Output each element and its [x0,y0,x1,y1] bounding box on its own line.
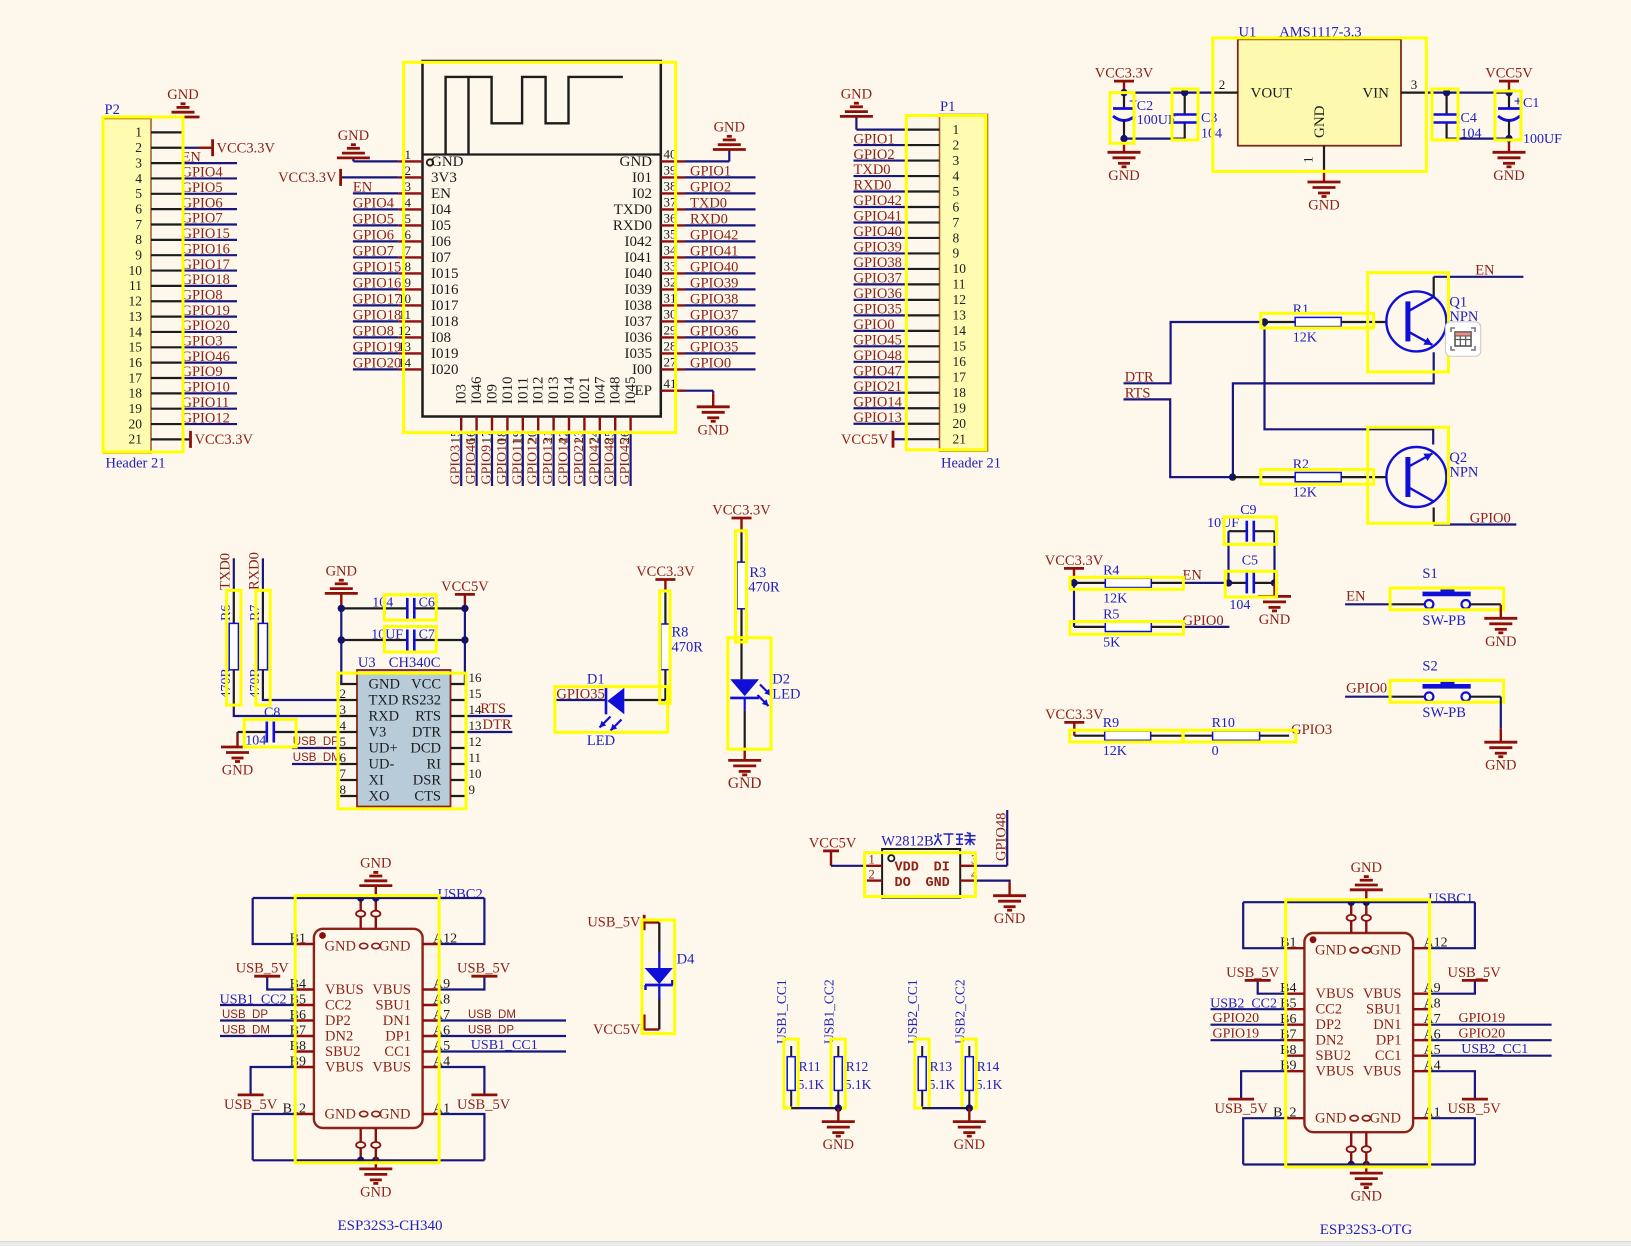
svg-text:GPIO38: GPIO38 [854,255,902,271]
svg-text:GPIO3: GPIO3 [182,334,223,350]
svg-text:USBC1: USBC1 [1428,891,1473,907]
svg-text:20: 20 [129,416,143,431]
svg-text:GPIO37: GPIO37 [690,308,738,324]
svg-text:USB_DM: USB_DM [468,1009,516,1021]
svg-text:6: 6 [405,227,412,242]
svg-text:DI: DI [934,861,950,876]
svg-text:GND: GND [823,1137,854,1153]
svg-text:GND: GND [620,154,653,170]
svg-text:100UF: 100UF [1523,132,1562,147]
svg-text:I02: I02 [632,186,652,202]
svg-text:GPIO13: GPIO13 [854,410,902,426]
svg-text:R11: R11 [799,1059,821,1074]
svg-text:GPIO39: GPIO39 [690,276,738,292]
svg-text:9: 9 [135,248,142,263]
svg-text:RXD0: RXD0 [690,212,728,228]
svg-text:GND: GND [714,120,745,136]
svg-text:CTS: CTS [414,789,441,805]
svg-text:GPIO19: GPIO19 [182,303,230,319]
svg-text:GPIO5: GPIO5 [182,180,223,196]
svg-text:GPIO35: GPIO35 [690,340,738,356]
svg-text:I07: I07 [431,250,451,266]
svg-text:VCC5V: VCC5V [841,432,889,448]
svg-text:19: 19 [953,401,967,416]
svg-text:USB2_CC1: USB2_CC1 [905,979,920,1044]
svg-text:15: 15 [953,339,967,354]
svg-text:EN: EN [1475,263,1495,279]
svg-text:GND: GND [167,87,198,103]
svg-text:7: 7 [953,215,960,230]
svg-text:GPIO13: GPIO13 [541,438,556,485]
svg-text:C3: C3 [1201,111,1217,126]
svg-text:USB1_CC2: USB1_CC2 [821,979,836,1044]
svg-text:S1: S1 [1422,566,1437,582]
svg-text:GND: GND [1370,943,1401,959]
svg-text:GPIO37: GPIO37 [854,271,902,287]
svg-text:470R: 470R [672,640,704,656]
svg-text:GPIO42: GPIO42 [690,228,738,244]
svg-text:GPIO41: GPIO41 [690,244,738,260]
svg-text:GPIO48: GPIO48 [603,438,618,485]
svg-text:GPIO16: GPIO16 [182,241,230,257]
svg-text:VCC: VCC [411,677,441,693]
svg-text:104: 104 [1461,127,1482,142]
svg-text:GPIO45: GPIO45 [854,333,902,349]
svg-text:12K: 12K [1293,486,1317,501]
svg-text:GPIO35: GPIO35 [854,302,902,318]
svg-text:USB_5V: USB_5V [1226,965,1280,981]
svg-text:5.1K: 5.1K [976,1077,1003,1092]
svg-text:I09: I09 [485,384,501,404]
svg-text:GND: GND [338,128,369,144]
svg-text:I011: I011 [515,377,531,404]
svg-text:UD-: UD- [369,757,395,773]
svg-text:C7: C7 [419,628,435,643]
svg-text:GPIO3: GPIO3 [449,445,464,485]
svg-text:UD+: UD+ [369,741,398,757]
svg-text:GPIO42: GPIO42 [854,193,902,209]
svg-text:VDD: VDD [895,861,919,876]
svg-text:2: 2 [405,163,412,178]
svg-text:11: 11 [953,277,966,292]
svg-text:EN: EN [431,186,451,202]
svg-text:GND: GND [326,563,357,579]
svg-text:GPIO9: GPIO9 [182,364,223,380]
svg-text:2: 2 [1219,77,1226,92]
svg-text:I047: I047 [592,376,608,404]
svg-text:DP1: DP1 [1376,1033,1402,1049]
svg-text:SBU2: SBU2 [325,1044,360,1060]
svg-text:CC2: CC2 [1316,1002,1343,1018]
svg-text:470R: 470R [748,580,780,596]
svg-text:I014: I014 [562,376,578,404]
svg-text:I015: I015 [431,266,459,282]
svg-text:15: 15 [469,686,482,701]
svg-text:EN: EN [1346,588,1366,604]
svg-text:GPIO21: GPIO21 [572,438,587,485]
svg-text:5.1K: 5.1K [845,1077,872,1092]
svg-text:USB_5V: USB_5V [1448,965,1502,981]
svg-text:USB_5V: USB_5V [1448,1101,1502,1117]
svg-text:GND: GND [925,876,949,891]
svg-text:17: 17 [953,370,967,385]
svg-text:GPIO19: GPIO19 [1213,1027,1260,1042]
svg-text:GPIO47: GPIO47 [854,363,902,379]
svg-text:USB_5V: USB_5V [224,1097,278,1113]
svg-text:GPIO19: GPIO19 [353,340,401,356]
svg-text:6: 6 [135,201,142,216]
svg-text:R14: R14 [977,1059,1000,1074]
svg-text:GPIO40: GPIO40 [690,260,738,276]
svg-text:RI: RI [427,757,442,773]
svg-text:USB_DP: USB_DP [222,1009,268,1021]
svg-text:12: 12 [953,292,967,307]
svg-text:SBU1: SBU1 [376,997,411,1013]
svg-text:GPIO38: GPIO38 [690,292,738,308]
svg-text:VBUS: VBUS [1316,986,1355,1002]
svg-text:C5: C5 [1242,554,1258,569]
svg-text:USB_DP: USB_DP [468,1025,514,1037]
svg-text:GPIO12: GPIO12 [526,438,541,485]
svg-text:1: 1 [869,853,875,867]
svg-text:GPIO11: GPIO11 [182,395,230,411]
svg-text:GPIO4: GPIO4 [353,196,395,212]
svg-text:R13: R13 [930,1059,953,1074]
svg-text:GPIO2: GPIO2 [690,180,731,196]
svg-text:GND: GND [728,775,762,792]
svg-text:P1: P1 [940,99,955,115]
svg-text:GPIO10: GPIO10 [495,438,510,485]
svg-text:8: 8 [953,230,960,245]
svg-text:Header 21: Header 21 [941,456,1001,472]
svg-text:GPIO36: GPIO36 [690,324,738,340]
svg-text:A8: A8 [433,993,450,1008]
svg-text:W2812B: W2812B [881,834,933,850]
svg-text:VCC3.3V: VCC3.3V [1045,707,1104,723]
svg-text:9: 9 [405,275,412,290]
svg-text:I038: I038 [625,298,653,314]
svg-text:8: 8 [135,232,142,247]
svg-text:GND: GND [325,939,356,955]
svg-text:VBUS: VBUS [1363,986,1402,1002]
svg-text:DN1: DN1 [383,1013,411,1029]
svg-text:GND: GND [431,154,464,170]
svg-text:I00: I00 [632,362,652,378]
svg-text:GPIO9: GPIO9 [480,445,495,485]
svg-text:GND: GND [379,1107,410,1123]
svg-text:GND: GND [954,1137,985,1153]
svg-text:R1: R1 [1293,303,1309,318]
svg-text:3V3: 3V3 [431,170,457,186]
svg-text:I03: I03 [454,384,470,404]
svg-text:GND: GND [1485,758,1516,774]
svg-text:3: 3 [135,155,142,170]
svg-text:5: 5 [953,184,960,199]
svg-text:GPIO11: GPIO11 [510,438,525,484]
svg-text:VBUS: VBUS [372,1059,411,1075]
svg-text:EN: EN [353,180,373,196]
svg-text:GND: GND [360,856,391,872]
svg-text:GND: GND [360,1184,391,1200]
svg-text:USB2_CC1: USB2_CC1 [1461,1042,1528,1057]
svg-text:DP1: DP1 [385,1028,411,1044]
svg-text:VIN: VIN [1362,86,1389,102]
svg-text:21: 21 [953,432,967,447]
svg-text:GPIO20: GPIO20 [353,356,401,372]
svg-text:1: 1 [953,122,960,137]
svg-text:5: 5 [340,734,347,749]
svg-text:2: 2 [953,137,960,152]
svg-text:USB_DM: USB_DM [222,1025,270,1037]
svg-text:I010: I010 [500,377,516,405]
svg-text:12K: 12K [1103,744,1127,759]
svg-text:RXD0: RXD0 [247,552,263,590]
svg-text:VCC3.3V: VCC3.3V [278,170,337,186]
svg-text:I017: I017 [431,298,459,314]
svg-text:1: 1 [405,147,412,162]
svg-text:NPN: NPN [1449,465,1479,481]
svg-text:11: 11 [469,750,482,765]
svg-text:GPIO0: GPIO0 [1470,511,1511,527]
svg-text:GND: GND [1351,860,1382,876]
svg-text:S2: S2 [1422,658,1437,674]
svg-text:12K: 12K [1103,591,1127,606]
svg-text:I039: I039 [625,282,653,298]
svg-text:GPIO19: GPIO19 [1459,1011,1506,1026]
svg-text:GPIO15: GPIO15 [182,226,230,242]
svg-text:DP2: DP2 [1316,1017,1342,1033]
svg-text:GND: GND [1259,612,1290,628]
svg-text:DCD: DCD [410,741,441,757]
svg-text:5.1K: 5.1K [798,1077,825,1092]
svg-text:GPIO17: GPIO17 [353,292,401,308]
svg-text:13: 13 [953,308,967,323]
svg-text:USB1_CC1: USB1_CC1 [471,1038,538,1053]
svg-text:GPIO2: GPIO2 [854,147,895,163]
svg-text:USB_5V: USB_5V [587,915,641,931]
svg-text:C2: C2 [1137,99,1153,114]
svg-text:16: 16 [129,355,143,370]
svg-text:GPIO36: GPIO36 [854,286,902,302]
svg-text:DN2: DN2 [1316,1033,1344,1049]
svg-text:GPIO8: GPIO8 [353,324,394,340]
svg-text:GPIO46: GPIO46 [182,349,230,365]
svg-text:TXD0: TXD0 [690,196,727,212]
svg-text:GPIO4: GPIO4 [182,165,224,181]
svg-text:C1: C1 [1523,96,1539,111]
svg-text:10: 10 [953,261,967,276]
svg-text:12: 12 [469,734,482,749]
svg-text:GPIO6: GPIO6 [182,195,223,211]
svg-text:C6: C6 [419,596,435,611]
svg-text:GPIO6: GPIO6 [353,228,394,244]
svg-text:13: 13 [469,718,482,733]
svg-text:I020: I020 [431,362,459,378]
svg-text:VBUS: VBUS [325,982,364,998]
svg-text:VCC3.3V: VCC3.3V [1095,66,1154,82]
svg-text:GPIO20: GPIO20 [1213,1011,1260,1026]
svg-text:4: 4 [953,168,960,183]
svg-text:GPIO8: GPIO8 [182,287,223,303]
svg-text:ESP32S3-OTG: ESP32S3-OTG [1320,1222,1413,1238]
svg-text:USB_5V: USB_5V [457,961,511,977]
svg-text:10UF: 10UF [371,628,403,643]
svg-text:8: 8 [340,782,347,797]
svg-text:XI: XI [369,773,384,789]
svg-text:13: 13 [129,309,143,324]
svg-text:GPIO21: GPIO21 [854,379,902,395]
svg-text:16: 16 [469,670,483,685]
svg-text:USB_5V: USB_5V [1215,1101,1269,1117]
svg-text:I035: I035 [625,346,653,362]
svg-text:GPIO1: GPIO1 [854,131,895,147]
svg-text:C4: C4 [1461,111,1477,126]
svg-text:SBU1: SBU1 [1366,1002,1401,1018]
svg-text:7: 7 [340,766,347,781]
svg-text:VCC5V: VCC5V [1485,66,1533,82]
svg-text:LED: LED [587,733,615,749]
svg-text:VBUS: VBUS [1316,1064,1355,1080]
svg-text:GND: GND [1308,198,1339,214]
svg-text:GPIO20: GPIO20 [1459,1027,1506,1042]
svg-text:GND: GND [1312,105,1328,138]
svg-text:I01: I01 [632,170,652,186]
svg-text:VCC3.3V: VCC3.3V [217,141,276,157]
svg-text:USB_DM: USB_DM [293,752,341,764]
svg-text:I041: I041 [625,250,653,266]
svg-text:GPIO41: GPIO41 [854,209,902,225]
svg-text:USB1_CC1: USB1_CC1 [774,979,789,1044]
svg-text:GPIO46: GPIO46 [464,438,479,485]
svg-text:17: 17 [129,370,143,385]
svg-text:I019: I019 [431,346,459,362]
svg-text:I016: I016 [431,282,459,298]
svg-text:RTS: RTS [480,701,506,717]
svg-text:DTR: DTR [412,725,441,741]
svg-text:GND: GND [1485,634,1516,650]
svg-text:5: 5 [405,211,412,226]
svg-text:3: 3 [1411,77,1418,92]
svg-text:VCC3.3V: VCC3.3V [636,564,695,580]
svg-text:VBUS: VBUS [372,982,411,998]
svg-text:I037: I037 [625,314,653,330]
svg-text:5.1K: 5.1K [929,1077,956,1092]
svg-text:TXD0: TXD0 [854,162,891,178]
svg-text:DN1: DN1 [1373,1017,1401,1033]
svg-text:RXD: RXD [369,709,400,725]
svg-text:I045: I045 [623,377,639,405]
svg-text:2: 2 [869,867,875,881]
svg-text:VBUS: VBUS [325,1059,364,1075]
svg-text:DTR: DTR [483,717,512,733]
svg-text:DSR: DSR [413,773,442,789]
svg-text:10: 10 [469,766,482,781]
svg-text:12: 12 [129,294,143,309]
svg-text:104: 104 [1229,598,1250,613]
svg-text:GPIO47: GPIO47 [587,438,602,485]
svg-text:16: 16 [953,354,967,369]
svg-text:GPIO18: GPIO18 [353,308,401,324]
svg-text:RS232: RS232 [402,693,442,709]
svg-text:I08: I08 [431,330,451,346]
svg-text:DN2: DN2 [325,1028,353,1044]
svg-text:GPIO48: GPIO48 [994,813,1010,861]
svg-text:RTS: RTS [415,709,441,725]
svg-text:VCC3.3V: VCC3.3V [1045,553,1104,569]
svg-text:I021: I021 [577,377,593,405]
svg-text:I018: I018 [431,314,459,330]
svg-text:GPIO15: GPIO15 [353,260,401,276]
svg-text:12K: 12K [1293,331,1317,346]
svg-text:CC1: CC1 [384,1044,411,1060]
svg-text:I036: I036 [625,330,653,346]
svg-text:GPIO0: GPIO0 [854,317,895,333]
svg-text:VCC3.3V: VCC3.3V [195,432,254,448]
svg-text:14: 14 [129,324,143,339]
svg-text:GPIO10: GPIO10 [182,380,230,396]
svg-text:15: 15 [129,340,143,355]
svg-text:8: 8 [405,259,412,274]
svg-text:GPIO0: GPIO0 [690,356,731,372]
svg-text:100UF: 100UF [1137,113,1176,128]
svg-text:TXD0: TXD0 [218,553,234,590]
svg-text:18: 18 [129,386,143,401]
svg-text:VCC5V: VCC5V [441,579,489,595]
svg-text:VCC5V: VCC5V [809,836,857,852]
svg-text:GND: GND [697,422,728,438]
svg-text:GPIO40: GPIO40 [854,224,902,240]
svg-text:USBC2: USBC2 [438,887,483,903]
svg-text:5K: 5K [1103,635,1120,650]
svg-text:GND: GND [1370,1111,1401,1127]
svg-text:I048: I048 [608,377,624,405]
svg-text:GND: GND [1493,168,1524,184]
svg-text:GPIO20: GPIO20 [182,318,230,334]
svg-text:SW-PB: SW-PB [1422,705,1466,721]
svg-text:3: 3 [953,153,960,168]
svg-text:2: 2 [135,140,142,155]
svg-text:GND: GND [1315,943,1346,959]
svg-text:GND: GND [369,677,400,693]
svg-text:4: 4 [135,171,142,186]
svg-text:CC2: CC2 [325,997,352,1013]
svg-text:USB_5V: USB_5V [236,961,290,977]
svg-text:GPIO16: GPIO16 [353,276,401,292]
svg-text:18: 18 [953,385,967,400]
svg-text:I040: I040 [625,266,653,282]
svg-text:GPIO17: GPIO17 [182,257,230,273]
svg-text:R12: R12 [846,1059,869,1074]
svg-text:9: 9 [469,782,476,797]
svg-text:VOUT: VOUT [1251,86,1293,102]
svg-text:3: 3 [405,179,412,194]
svg-text:GND: GND [994,911,1025,927]
svg-text:CC1: CC1 [1375,1048,1402,1064]
svg-text:GND: GND [1351,1189,1382,1205]
svg-text:GND: GND [1108,168,1139,184]
svg-text:Header 21: Header 21 [106,456,166,472]
svg-text:TXD: TXD [369,693,399,709]
svg-text:4: 4 [340,718,347,733]
svg-text:XO: XO [369,789,390,805]
svg-text:B8: B8 [290,1039,306,1054]
svg-text:19: 19 [129,401,143,416]
svg-text:GPIO14: GPIO14 [854,394,903,410]
svg-text:TXD0: TXD0 [614,202,652,218]
svg-text:GPIO5: GPIO5 [353,212,394,228]
svg-text:A8: A8 [1424,997,1441,1012]
svg-text:9: 9 [953,246,960,261]
